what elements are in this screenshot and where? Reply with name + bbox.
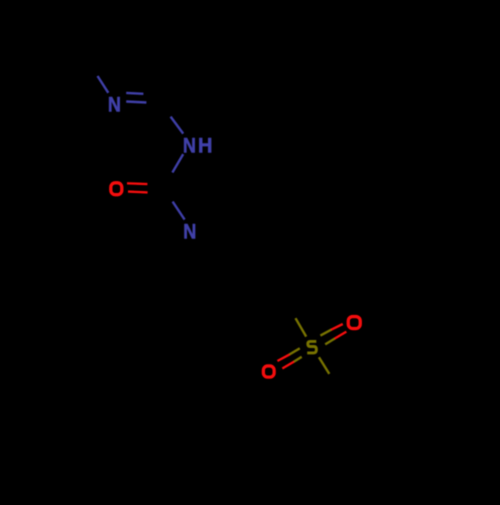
svg-text:N: N xyxy=(183,134,196,158)
wire: S1=O3 double bond upper line red half xyxy=(277,354,289,361)
node O3: sulfonyl oxygen label lower left xyxy=(263,366,274,377)
wire: S1=O2 double bond upper line olive half xyxy=(320,330,331,336)
wire: S1=O3 double bond lower line olive half xyxy=(294,357,302,362)
wire: C7-N4 bond (blue half near N) xyxy=(173,202,185,220)
svg-text:H: H xyxy=(198,134,212,158)
svg-text:N: N xyxy=(183,220,196,244)
node O2: sulfonyl oxygen label upper right xyxy=(348,317,360,329)
wire: N3-C7 bond (blue half near NH) xyxy=(172,154,183,172)
wire: pyridine N1-C6 bond (blue half) xyxy=(98,76,109,93)
wire: S1=O2 double bond upper line red half xyxy=(331,324,343,330)
wire: S1=O2 double bond lower line red half xyxy=(335,332,347,339)
wire: C2-N3 bond (blue half near NH) xyxy=(171,117,184,134)
wire: S1=O3 double bond lower line red half xyxy=(282,362,294,369)
wire: C7=O1 double bond upper line (red half) xyxy=(127,182,147,185)
wire: C7=O1 double bond lower line (red half) xyxy=(128,190,148,193)
wire: CH3-S bond (olive half near S) xyxy=(296,318,307,336)
node O1: carbonyl oxygen label xyxy=(111,183,122,195)
wire: S1=O3 double bond upper line olive half xyxy=(290,348,300,354)
wire: N1=C2 double bond upper line (blue half) xyxy=(126,92,143,95)
svg-text:N: N xyxy=(108,93,121,117)
wire: S1=O2 double bond lower line olive half xyxy=(325,339,334,345)
wire: S1-phenyl bond (olive half near S) xyxy=(319,357,329,374)
node S1: sulfonyl sulfur label xyxy=(307,341,316,353)
wire: N1=C2 double bond lower line (blue half) xyxy=(126,102,146,103)
